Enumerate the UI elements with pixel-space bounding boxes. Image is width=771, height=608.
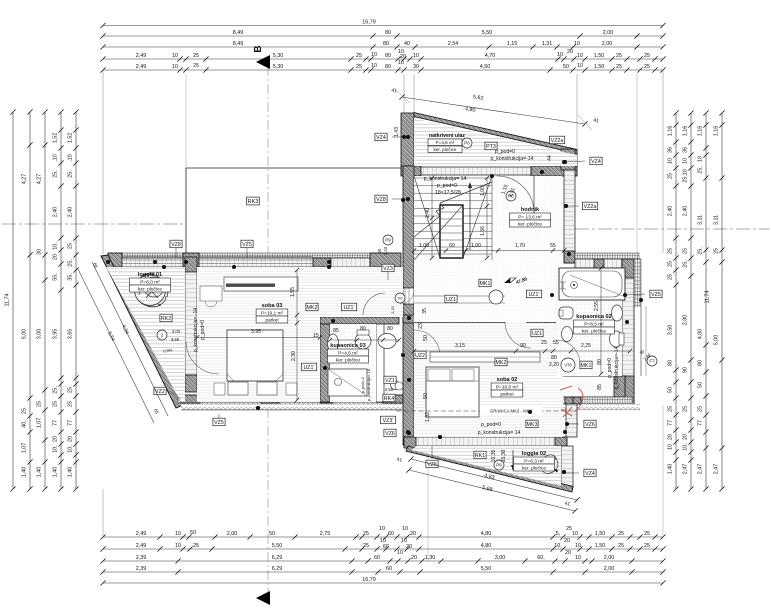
tag VZ5 bottom [213, 418, 225, 426]
svg-text:2,00: 2,00 [227, 531, 238, 537]
loggia01 slanted wall [101, 255, 183, 408]
svg-text:4,27: 4,27 [21, 174, 27, 185]
sink2 kupaonica02 [562, 327, 573, 342]
svg-text:p_pod=0: p_pod=0 [437, 183, 457, 189]
circle P6 hodnik door [506, 191, 516, 201]
svg-text:77: 77 [667, 420, 673, 426]
svg-text:p_konstrukcija=-14: p_konstrukcija=-14 [614, 346, 620, 389]
svg-text:VZ8: VZ8 [171, 242, 181, 248]
tiles kupaonica02 [556, 268, 622, 376]
svg-text:10,30: 10,30 [501, 449, 507, 462]
svg-text:P=4,6 m²: P=4,6 m² [338, 350, 358, 356]
svg-text:25,: 25, [67, 259, 73, 267]
svg-text:25,: 25, [697, 166, 703, 174]
svg-text:1,07: 1,07 [21, 443, 27, 454]
svg-text:10,: 10, [554, 543, 562, 549]
svg-text:2,40: 2,40 [682, 206, 688, 217]
svg-text:8,49: 8,49 [233, 30, 244, 36]
svg-text:10: 10 [557, 52, 563, 58]
svg-text:3,11: 3,11 [713, 215, 719, 225]
shaft wall next to kupaonica03 [376, 324, 384, 402]
svg-text:VZ2a: VZ2a [551, 138, 564, 144]
beam lines lower hodnik [414, 295, 505, 297]
svg-text:V70: V70 [564, 363, 572, 368]
svg-text:10,: 10, [67, 445, 73, 453]
svg-text:25: 25 [713, 248, 719, 254]
svg-text:1,15: 1,15 [507, 41, 518, 47]
svg-text:loggia 02: loggia 02 [522, 451, 546, 457]
svg-text:VZ8: VZ8 [376, 197, 386, 203]
svg-text:10: 10 [379, 526, 385, 532]
svg-text:ker. pločice: ker. pločice [434, 147, 457, 152]
svg-text:10: 10 [574, 41, 580, 47]
svg-text:60: 60 [383, 544, 389, 550]
axis dash line left [2, 223, 186, 225]
svg-text:25: 25 [667, 173, 673, 179]
svg-text:60,: 60, [537, 555, 545, 561]
svg-text:kupaonica 02: kupaonica 02 [576, 314, 611, 320]
svg-text:60: 60 [449, 243, 455, 249]
tiles kupaonica03 [330, 324, 376, 402]
svg-text:3,95: 3,95 [251, 329, 261, 335]
svg-text:25: 25 [356, 64, 362, 70]
svg-text:50: 50 [423, 335, 429, 341]
circle D shaft [395, 382, 403, 390]
toilet kupaonica03 [355, 333, 371, 349]
wardrobe soba02 [430, 352, 540, 362]
svg-text:50: 50 [190, 530, 196, 536]
svg-text:UZ1': UZ1' [303, 365, 314, 371]
svg-text:20: 20 [567, 49, 573, 55]
bed soba03 [227, 330, 283, 381]
svg-text:2,20: 2,20 [391, 306, 395, 313]
svg-text:ker. pločice: ker. pločice [336, 357, 360, 363]
svg-text:1,52: 1,52 [52, 133, 58, 144]
svg-text:loggia 01: loggia 01 [138, 272, 162, 278]
section line B vertical [267, 66, 269, 592]
svg-text:3,15: 3,15 [455, 343, 465, 349]
svg-text:1,16: 1,16 [697, 126, 703, 137]
svg-text:1,66: 1,66 [480, 226, 486, 236]
svg-text:1,16: 1,16 [713, 126, 719, 137]
svg-text:5,50: 5,50 [482, 30, 493, 36]
svg-text:6,29: 6,29 [272, 566, 283, 572]
svg-text:2,25: 2,25 [581, 343, 591, 349]
svg-text:3,11: 3,11 [697, 215, 703, 225]
svg-text:2,49: 2,49 [136, 543, 147, 549]
svg-text:30: 30 [36, 249, 42, 255]
svg-text:10: 10 [175, 531, 181, 537]
svg-text:25: 25 [644, 543, 650, 549]
kupaonica02 top wall [575, 253, 639, 259]
svg-text:MK1: MK1 [480, 281, 491, 287]
svg-text:UZ2: UZ2 [415, 353, 425, 359]
svg-text:P=19,1 m²: P=19,1 m² [261, 310, 284, 316]
svg-text:5,00: 5,00 [21, 329, 27, 340]
svg-text:3,00: 3,00 [172, 329, 181, 334]
svg-text:2,47: 2,47 [713, 464, 719, 475]
svg-text:GRANICA MK2 - MK3: GRANICA MK2 - MK3 [490, 409, 533, 414]
hodnik-soba02 wall [403, 315, 505, 323]
svg-text:4,00: 4,00 [697, 329, 703, 340]
soba02-kupaonica02 wall [546, 322, 556, 340]
svg-text:77: 77 [67, 420, 73, 426]
svg-text:11,74: 11,74 [4, 293, 10, 306]
svg-text:VZ2: VZ2 [155, 389, 165, 395]
stairs up arrow [469, 185, 471, 250]
left dimension block [12, 112, 14, 489]
svg-text:25,: 25, [52, 170, 58, 178]
svg-text:5,30: 5,30 [273, 64, 284, 70]
svg-text:40: 40 [404, 41, 410, 47]
svg-text:16,79: 16,79 [362, 19, 376, 25]
svg-text:10,: 10, [682, 443, 688, 451]
tag VZ6 right [584, 420, 596, 428]
svg-text:25: 25 [52, 401, 58, 407]
door kupaonica03 arc [363, 293, 385, 315]
svg-text:8,49: 8,49 [233, 41, 244, 47]
hodnik tile floor hint [414, 176, 562, 322]
svg-text:80: 80 [385, 53, 391, 59]
tag VZ2 [154, 387, 166, 395]
svg-text:2,49: 2,49 [136, 64, 147, 70]
svg-text:kupaonica 03: kupaonica 03 [330, 343, 365, 349]
axis dash line right [575, 228, 769, 230]
svg-text:MK1: MK1 [581, 363, 592, 369]
svg-text:4,50: 4,50 [480, 64, 491, 70]
svg-text:VZ5: VZ5 [651, 292, 661, 298]
tag VZ2a right [582, 202, 597, 210]
svg-text:55,: 55, [52, 273, 58, 281]
svg-text:25: 25 [67, 401, 73, 407]
svg-text:UZ1': UZ1' [528, 292, 539, 298]
circle E left [157, 330, 167, 340]
svg-text:41: 41 [391, 88, 398, 95]
svg-text:3,65: 3,65 [67, 329, 73, 340]
svg-text:p_konstrukcija= -14: p_konstrukcija= -14 [193, 308, 199, 352]
tag RK1 [474, 451, 486, 459]
svg-text:VZ3: VZ3 [383, 266, 393, 272]
junction dots [162, 265, 166, 269]
svg-text:25: 25 [697, 406, 703, 412]
svg-text:3,00: 3,00 [495, 555, 506, 561]
svg-text:25: 25 [193, 63, 199, 69]
tag VZ3b [380, 416, 395, 424]
stairs break zigzag [414, 182, 492, 237]
svg-text:18×17,5/28: 18×17,5/28 [435, 190, 461, 196]
tag UZ1 d [531, 329, 543, 337]
svg-text:2,55: 2,55 [594, 301, 600, 311]
svg-text:UZ1: UZ1 [532, 331, 542, 337]
svg-text:UZ1': UZ1' [343, 305, 354, 311]
porch deck floor [414, 119, 577, 167]
svg-text:1,50: 1,50 [594, 64, 605, 70]
svg-text:80: 80 [387, 326, 393, 332]
svg-text:RK2: RK2 [161, 316, 171, 322]
kupaonica03 left wall [320, 324, 330, 402]
svg-text:85: 85 [333, 328, 339, 334]
svg-text:80: 80 [597, 359, 603, 365]
svg-text:15: 15 [313, 333, 319, 339]
hodnik right exterior wall [564, 153, 575, 263]
stairs treads [414, 177, 492, 179]
svg-text:MK2: MK2 [496, 360, 507, 366]
tag UZ1 e [301, 363, 316, 371]
tag VZ1 [384, 376, 396, 384]
svg-text:p_pod=-2: p_pod=-2 [361, 377, 365, 393]
svg-text:1,00: 1,00 [471, 243, 481, 249]
svg-text:1,00: 1,00 [419, 243, 429, 249]
svg-text:UZ1: UZ1 [446, 297, 456, 303]
svg-text:80: 80 [667, 360, 673, 366]
section marker B top [256, 55, 270, 69]
svg-text:20: 20 [52, 254, 58, 260]
svg-text:RK3: RK3 [248, 199, 259, 205]
svg-text:10,: 10, [52, 445, 58, 453]
svg-text:MK3: MK3 [527, 422, 538, 428]
svg-text:1,40: 1,40 [36, 467, 42, 478]
svg-text:11,74: 11,74 [704, 290, 710, 303]
tag VZ4 topright [590, 157, 602, 165]
tag VZ6 left [384, 429, 396, 437]
svg-text:20: 20 [411, 555, 417, 561]
svg-text:60: 60 [386, 566, 392, 572]
svg-text:80: 80 [360, 326, 366, 332]
svg-text:2,39: 2,39 [136, 555, 147, 561]
svg-text:25: 25 [363, 531, 369, 537]
granica MK2-MK3 dashed line [396, 410, 577, 412]
svg-text:2,40: 2,40 [667, 206, 673, 217]
diagonal dim top [402, 97, 585, 124]
elevation flag 47,89 [504, 278, 510, 283]
loggia02 down arrow [512, 450, 514, 468]
tag VZ3 [382, 264, 394, 272]
svg-text:25: 25 [618, 531, 624, 537]
svg-text:90: 90 [682, 367, 688, 373]
svg-text:parket: parket [265, 317, 279, 323]
svg-text:25: 25 [363, 543, 369, 549]
svg-text:20: 20 [67, 436, 73, 442]
svg-text:10: 10 [402, 526, 408, 532]
parquet soba03 [197, 267, 403, 317]
svg-text:25: 25 [67, 243, 73, 249]
svg-text:25: 25 [616, 64, 622, 70]
svg-text:1,16: 1,16 [682, 126, 688, 137]
svg-text:25: 25 [616, 53, 622, 59]
top dimension block [103, 25, 663, 27]
svg-text:VZ5: VZ5 [242, 242, 252, 248]
svg-text:5,00: 5,00 [713, 335, 719, 346]
bottom dimension block [103, 536, 663, 538]
svg-text:50: 50 [667, 387, 673, 393]
svg-text:25: 25 [644, 531, 650, 537]
svg-text:V0: V0 [398, 295, 404, 300]
svg-text:B: B [253, 45, 264, 52]
svg-text:1,50: 1,50 [594, 53, 605, 59]
svg-text:1,31: 1,31 [542, 41, 553, 47]
svg-text:20: 20 [52, 436, 58, 442]
svg-text:77: 77 [52, 420, 58, 426]
tag UZ1 a [341, 303, 356, 311]
svg-text:25,: 25, [52, 386, 58, 394]
svg-text:4,27: 4,27 [36, 174, 42, 185]
roof outline RK3 rectangle [186, 167, 403, 169]
door hodnik lower arc [505, 322, 531, 348]
svg-text:2,00: 2,00 [602, 41, 613, 47]
svg-text:85: 85 [597, 384, 603, 390]
svg-text:50: 50 [697, 382, 703, 388]
tag MK1 right [580, 361, 592, 369]
svg-text:parket: parket [500, 391, 514, 397]
svg-text:2,47: 2,47 [697, 464, 703, 475]
svg-text:80: 80 [383, 41, 389, 47]
svg-text:44: 44 [547, 155, 553, 161]
svg-text:4,80: 4,80 [481, 531, 492, 537]
svg-text:25: 25 [541, 340, 547, 346]
svg-text:2,20: 2,20 [549, 362, 559, 368]
svg-text:P=6,0 m²: P=6,0 m² [140, 279, 160, 285]
tag VZ5 topwall [241, 240, 253, 248]
soba02 right edge wall [565, 397, 573, 404]
toilet kupaonica02 [610, 331, 623, 347]
svg-text:55: 55 [553, 340, 559, 346]
svg-text:p_pod=0: p_pod=0 [495, 149, 515, 155]
svg-text:10: 10 [397, 550, 403, 556]
svg-text:25: 25 [644, 53, 650, 59]
entrance door arc [497, 176, 534, 213]
svg-text:10: 10 [667, 158, 673, 164]
svg-text:10,35: 10,35 [491, 449, 497, 462]
svg-text:VZ1: VZ1 [385, 378, 395, 384]
svg-text:1,40: 1,40 [52, 467, 58, 478]
svg-text:80: 80 [697, 360, 703, 366]
svg-text:25,: 25, [67, 170, 73, 178]
circle P9 [383, 235, 393, 245]
svg-text:1,40: 1,40 [21, 467, 27, 478]
svg-text:10: 10 [577, 53, 583, 59]
svg-text:25: 25 [667, 248, 673, 254]
bidet kupaonica02 [612, 305, 623, 321]
svg-text:10: 10 [175, 543, 181, 549]
svg-text:4,70: 4,70 [485, 53, 496, 59]
loggia01 divider wall [185, 257, 197, 272]
svg-text:10: 10 [697, 156, 703, 162]
circle V70 [561, 358, 575, 372]
svg-text:P=16,0 m²: P=16,0 m² [496, 384, 519, 390]
svg-text:p_konstrukcija= 14: p_konstrukcija= 14 [478, 430, 521, 436]
diagonal dim bottom [411, 459, 577, 500]
svg-text:10: 10 [371, 52, 377, 58]
bed soba02 [426, 367, 479, 417]
plant loggia02 scribble [540, 455, 558, 474]
svg-text:ker. pločice: ker. pločice [522, 465, 546, 471]
wardrobe soba03 [224, 277, 298, 291]
svg-text:p_pod=0: p_pod=0 [200, 320, 206, 340]
svg-text:80: 80 [385, 64, 391, 70]
svg-text:25: 25 [682, 406, 688, 412]
svg-text:1,07: 1,07 [36, 418, 42, 429]
svg-text:p_konstrukcija=-14: p_konstrukcija=-14 [491, 156, 534, 162]
right exterior wall [622, 259, 634, 405]
building top wall band [401, 166, 421, 176]
svg-text:30: 30 [413, 64, 419, 70]
tag VZ6 loggia [426, 460, 438, 468]
svg-text:10: 10 [575, 543, 581, 549]
shower kupaonica03 [328, 369, 367, 396]
door kupaonica02 arc [556, 340, 580, 364]
left wing bottom wall [178, 395, 403, 403]
tag PT3 [485, 142, 497, 150]
svg-text:2,55: 2,55 [385, 387, 394, 392]
tag UZ1 c [526, 290, 541, 298]
loggia01 deck floor [106, 267, 185, 402]
svg-text:natkriveni ulaz: natkriveni ulaz [429, 133, 465, 139]
svg-text:35,: 35, [67, 273, 73, 281]
svg-text:2,43: 2,43 [383, 246, 388, 255]
svg-text:VZ4: VZ4 [585, 471, 595, 477]
svg-text:60: 60 [377, 248, 382, 253]
svg-text:20: 20 [565, 550, 571, 556]
svg-text:2,49: 2,49 [136, 531, 147, 537]
svg-text:25,: 25, [682, 260, 688, 268]
svg-text:1,52: 1,52 [67, 133, 73, 144]
tag VZ8 left [375, 195, 387, 203]
svg-text:60: 60 [374, 555, 380, 561]
svg-text:3,65: 3,65 [171, 337, 180, 342]
tag VZ5 farright [650, 290, 662, 298]
svg-text:2,39: 2,39 [136, 566, 147, 572]
svg-text:25: 25 [67, 387, 73, 393]
svg-text:p_konstrukcija= 14: p_konstrukcija= 14 [424, 176, 467, 182]
svg-text:20: 20 [682, 434, 688, 440]
nightstand soba03 [214, 383, 225, 395]
svg-text:1,00: 1,00 [480, 186, 486, 196]
svg-text:10: 10 [572, 531, 578, 537]
kupaonica02 bottom wall / ledge [548, 376, 625, 397]
stairs diagonals [414, 205, 463, 260]
label RK3 [247, 197, 260, 205]
svg-text:20: 20 [564, 538, 570, 544]
stair shaft [440, 205, 463, 258]
svg-text:25: 25 [356, 53, 362, 59]
svg-text:2: 2 [161, 333, 164, 338]
svg-text:ker. pločice: ker. pločice [582, 328, 606, 334]
svg-text:hodnik: hodnik [521, 207, 540, 213]
svg-text:10: 10 [172, 53, 178, 59]
svg-text:10: 10 [577, 63, 583, 69]
section marker B bottom [256, 591, 270, 605]
desk soba03 [200, 286, 222, 301]
svg-text:2,00: 2,00 [604, 566, 615, 572]
svg-text:1,16: 1,16 [667, 126, 673, 137]
svg-text:20: 20 [410, 531, 416, 537]
svg-text:25: 25 [682, 248, 688, 254]
svg-text:1,40: 1,40 [667, 464, 673, 475]
svg-text:2,40: 2,40 [67, 207, 73, 218]
left wing window marks top wall [122, 256, 183, 258]
right dimension block [675, 113, 677, 489]
red pen scribble [560, 386, 583, 417]
svg-text:25: 25 [618, 543, 624, 549]
svg-text:2,40: 2,40 [425, 208, 431, 218]
svg-text:soba 03: soba 03 [262, 303, 283, 309]
svg-text:25,10: 25,10 [682, 169, 688, 183]
svg-text:VZ4: VZ4 [376, 135, 386, 141]
svg-text:77: 77 [697, 420, 703, 426]
loggia02 slanted edge [406, 446, 573, 492]
svg-text:1,40: 1,40 [67, 467, 73, 478]
interior dim lines [414, 250, 564, 252]
